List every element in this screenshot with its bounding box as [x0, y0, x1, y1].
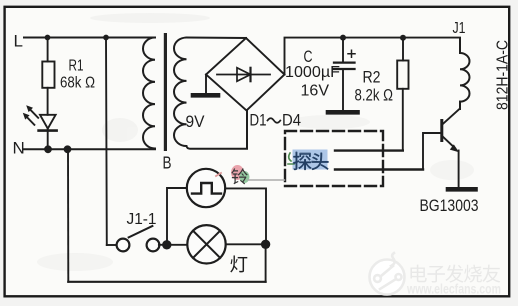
node: lamp/flasher left junction: [162, 240, 171, 249]
svg-text:www.elecfans.com: www.elecfans.com: [406, 282, 501, 297]
watermark text 电子发烧友: [410, 265, 426, 283]
bridge diode symbol: [217, 74, 270, 76]
transformer core: [164, 33, 167, 151]
wire: secondary top to bridge: [187, 37, 247, 40]
transformer B primary winding: [143, 38, 155, 149]
wire: base connection: [423, 133, 440, 170]
wire: to switch contact: [107, 244, 117, 246]
LED arrow 2: [27, 117, 35, 125]
capacitor C 1000uF: [342, 40, 344, 61]
watermark flower mark 铃: [231, 165, 244, 180]
resistor R2 8.2k: [402, 38, 404, 61]
wire: bottom loop horizontal: [68, 281, 265, 283]
switch lever: [129, 226, 153, 237]
relay coil J1: [460, 38, 470, 109]
transistor BG13003: [440, 121, 443, 141]
wire: N line (neutral rail): [23, 148, 155, 150]
faint link line to probe box: [248, 179, 285, 181]
ground bar (emitter): [448, 187, 476, 192]
switch J1-1 contact b: [147, 239, 160, 252]
pulse device (flasher): [187, 169, 225, 207]
scan noise: [37, 13, 474, 271]
switch J1-1 contact a: [117, 239, 130, 252]
node: lamp/flasher right junction: [261, 240, 270, 249]
node: junction L/switch branch: [103, 35, 109, 41]
LED indicator diode: [40, 115, 56, 129]
svg-text:812H-1A-C: 812H-1A-C: [495, 40, 512, 110]
svg-text:8.2k Ω: 8.2k Ω: [355, 87, 394, 105]
svg-text:68k Ω: 68k Ω: [60, 75, 95, 92]
svg-text:D1: D1: [250, 112, 267, 130]
wire: lamp right: [226, 243, 262, 245]
ground bar (bridge): [193, 93, 218, 98]
svg-text:1000µF: 1000µF: [285, 64, 340, 81]
wire: switch to lamp: [159, 244, 187, 246]
wire: L line (live rail): [24, 37, 155, 39]
probe electrode upper: [335, 149, 403, 151]
wire: junction to bottom loop: [265, 244, 267, 281]
node: junction L/R1: [45, 35, 51, 41]
plus sign: [348, 50, 355, 57]
probe label highlight 探头: [293, 150, 328, 170]
wire: bottom loop left vertical: [67, 149, 69, 281]
probe electrode lower: [335, 168, 423, 170]
svg-text:J1-1: J1-1: [127, 211, 157, 228]
svg-text:9V: 9V: [186, 112, 206, 131]
node: junction N/bottom loop: [64, 145, 72, 153]
watermark logo circle (elecfans): [370, 253, 405, 295]
transformer secondary winding: [174, 38, 247, 149]
svg-text:D4: D4: [282, 112, 301, 130]
resistor R1 68k: [47, 38, 49, 62]
svg-text:N: N: [13, 139, 25, 158]
node: rail/C junction: [340, 35, 346, 41]
node: rail/R2 junction: [400, 35, 406, 41]
bridge rectifier D1~D4 diamond: [206, 38, 285, 111]
probe dashed box: [285, 131, 383, 186]
ground bar (C minus): [328, 110, 358, 115]
label 灯: [230, 256, 247, 273]
wire: flasher right: [225, 188, 266, 244]
node: junction N/LED: [44, 145, 52, 153]
wire: DC+ rail from bridge: [285, 38, 461, 75]
svg-text:J1: J1: [453, 20, 466, 37]
svg-text:16V: 16V: [301, 83, 330, 100]
svg-text:R2: R2: [363, 69, 381, 87]
wire: flasher left: [167, 188, 187, 245]
svg-text:R1: R1: [69, 58, 84, 75]
svg-text:B: B: [163, 153, 172, 173]
lamp: [187, 225, 225, 263]
LED arrow 1: [30, 109, 38, 117]
svg-text:L: L: [14, 32, 23, 51]
wire: switch branch vertical from L: [105, 38, 108, 246]
wire: bridge minus to ground: [205, 75, 207, 94]
svg-text:BG13003: BG13003: [420, 196, 479, 215]
